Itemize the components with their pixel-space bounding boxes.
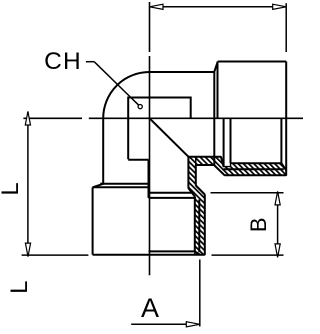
- svg-text:CH: CH: [44, 48, 82, 75]
- svg-text:L: L: [0, 182, 24, 195]
- svg-text:B: B: [246, 217, 271, 232]
- svg-text:A: A: [141, 293, 159, 323]
- svg-text:L: L: [6, 281, 33, 294]
